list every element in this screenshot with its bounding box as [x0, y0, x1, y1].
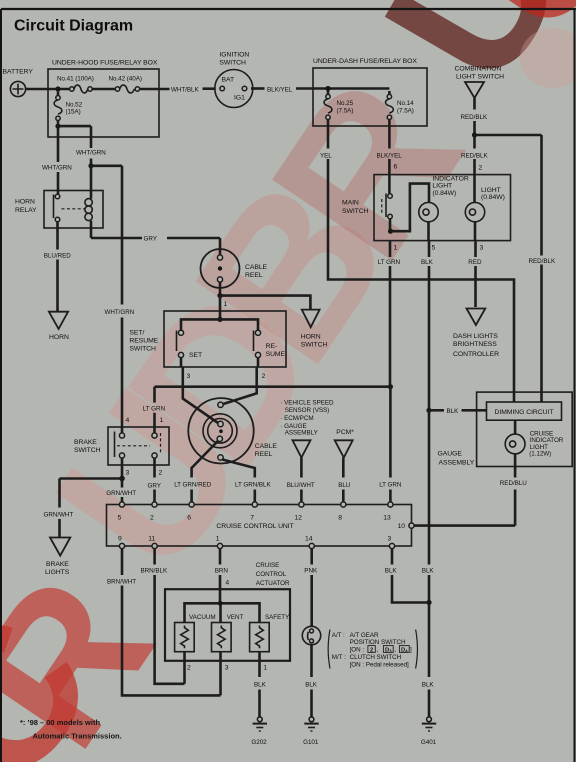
svg-text:GRY: GRY: [144, 236, 158, 243]
svg-text:CONTROLLER: CONTROLLER: [453, 351, 499, 358]
svg-text:SWITCH: SWITCH: [74, 447, 101, 454]
svg-text:7: 7: [250, 515, 254, 522]
wire indicator light to terminal 5: [427, 222, 430, 241]
wire BLU/RED horn relay to horn: [44, 222, 71, 311]
light (0.84W): [465, 175, 505, 241]
svg-text:(0.84W): (0.84W): [481, 194, 505, 201]
svg-text:CRUISE: CRUISE: [256, 562, 279, 569]
svg-text:WHT/GRN: WHT/GRN: [76, 149, 106, 156]
fuse No.41 (100A): [57, 76, 94, 93]
cable reel lower: [188, 398, 277, 463]
cruise control actuator box: [165, 562, 290, 661]
svg-text:(1.12W): (1.12W): [529, 450, 551, 457]
footnote: [20, 718, 122, 741]
node main switch junction: [388, 229, 393, 234]
node WHT/GRN junction: [88, 163, 93, 168]
svg-text:1: 1: [224, 301, 228, 308]
svg-text:CABLE: CABLE: [255, 443, 278, 450]
svg-text:1: 1: [394, 245, 398, 252]
svg-text:BLU/RED: BLU/RED: [44, 253, 71, 260]
svg-text:8: 8: [338, 515, 342, 522]
brake lights: [45, 538, 70, 577]
svg-text:ASSEMBLY: ASSEMBLY: [285, 430, 319, 437]
svg-text:BLK/YEL: BLK/YEL: [377, 152, 403, 159]
wire WHT/GRN mid drop to junction: [76, 126, 106, 166]
svg-text:BRAKE: BRAKE: [46, 561, 69, 568]
svg-text:CABLE: CABLE: [245, 264, 268, 271]
wire RED/BLK branch right to dimming circuit: [475, 135, 556, 402]
svg-text:RED/BLK: RED/BLK: [461, 114, 488, 121]
svg-text:HORN: HORN: [15, 198, 35, 205]
svg-text:MAIN: MAIN: [342, 200, 359, 207]
svg-text:WHT/GRN: WHT/GRN: [105, 309, 135, 316]
svg-text:3: 3: [187, 373, 191, 380]
wire BLK/YEL from fuse 14 to main switch terminal 6: [377, 120, 403, 175]
set/resume switch box: [129, 311, 286, 367]
svg-text:11: 11: [148, 535, 155, 542]
wire WHT/GRN left drop to horn relay contact: [42, 126, 72, 194]
wire BLK unit pin 3 to junction: [385, 549, 429, 603]
svg-text:WHT/BLK: WHT/BLK: [171, 86, 199, 93]
svg-text:IGNITION: IGNITION: [219, 52, 249, 59]
svg-text:[ON :: [ON :: [350, 647, 365, 654]
node brake junction: [119, 476, 125, 482]
wire LT GRN terminal 1 to LT GRN bus: [378, 241, 401, 387]
svg-text:RESUME: RESUME: [129, 338, 158, 345]
svg-text:RED/BLK: RED/BLK: [461, 152, 488, 159]
wire junction to set and resume contacts: [181, 319, 258, 330]
wire RED/BLK from combination light switch: [461, 98, 488, 135]
svg-text:ASSEMBLY: ASSEMBLY: [439, 460, 475, 467]
under-hood fuse/relay box: [48, 60, 159, 138]
svg-text:5: 5: [432, 245, 436, 252]
svg-text:3: 3: [225, 665, 229, 672]
svg-text:LT GRN/BLK: LT GRN/BLK: [235, 482, 272, 489]
wire GRY horn relay coil to cable reel: [91, 221, 220, 255]
wire BRN unit pin 1 to actuator terminal 4: [215, 549, 230, 604]
svg-text:A/T GEAR: A/T GEAR: [350, 632, 379, 639]
svg-text:SWITCH: SWITCH: [301, 342, 328, 349]
svg-text:G401: G401: [421, 739, 437, 746]
svg-text:SWITCH: SWITCH: [129, 346, 156, 353]
vacuum solenoid: [175, 614, 216, 652]
svg-text:LT GRN: LT GRN: [379, 482, 402, 489]
svg-text:RE-: RE-: [266, 343, 278, 350]
wire WHT/GRN long run to brake switch terminal 4: [105, 166, 135, 433]
fuse No.42 (40A): [109, 76, 142, 93]
vss triangle: [293, 440, 311, 457]
svg-text:GRN/WHT: GRN/WHT: [106, 490, 136, 497]
svg-text:D3: D3: [385, 647, 392, 653]
svg-text:2: 2: [479, 164, 483, 171]
svg-text:4: 4: [225, 579, 229, 586]
svg-text:No.25: No.25: [337, 100, 354, 107]
pcm triangle: [335, 429, 355, 458]
node horn branch junction: [217, 293, 222, 298]
svg-text:IG1: IG1: [234, 95, 245, 102]
svg-text:(7.5A): (7.5A): [337, 107, 354, 114]
wire BRN/WHT unit pin 9 to vent solenoid: [107, 549, 221, 696]
main switch box: [342, 175, 511, 241]
svg-text:HORN: HORN: [301, 334, 321, 341]
svg-text:1: 1: [160, 417, 164, 424]
horn relay: [15, 191, 103, 229]
wire BLK/YEL ignition to under-dash box: [251, 86, 313, 93]
svg-text:4: 4: [126, 417, 130, 424]
a/t note block: [328, 630, 417, 669]
svg-text:RED/BLK: RED/BLK: [529, 258, 556, 265]
safety solenoid: [250, 614, 290, 652]
svg-text:3: 3: [480, 245, 484, 252]
wire RED terminal 3 to dash lights controller: [468, 241, 483, 307]
frame and title (decorative): [1, 8, 576, 10]
fuse No.14 (7.5A): [386, 91, 415, 120]
svg-text:WHT/GRN: WHT/GRN: [42, 164, 72, 171]
svg-text:BLK: BLK: [421, 259, 434, 266]
svg-text:,: ,: [376, 647, 378, 654]
battery: [3, 69, 34, 97]
wire LT GRN bus to brake switch terminal 1: [143, 387, 391, 433]
svg-text:D4: D4: [401, 647, 408, 653]
svg-text:DASH LIGHTS: DASH LIGHTS: [453, 333, 498, 340]
svg-text:Automatic Transmission.: Automatic Transmission.: [33, 732, 122, 741]
wire fuse52 junction to coil branch: [58, 125, 91, 128]
svg-text:PNK: PNK: [304, 568, 318, 575]
wire cable reel to junction: [219, 282, 222, 296]
node BLK junction at 602: [426, 600, 431, 605]
svg-text:LIGHTS: LIGHTS: [45, 569, 70, 576]
svg-text:,: ,: [394, 647, 396, 654]
svg-text:SUME: SUME: [266, 351, 286, 358]
svg-text:13: 13: [383, 515, 391, 522]
svg-text:*: ’98 – 00 models with: *: ’98 – 00 models with: [20, 718, 100, 727]
svg-text:LT GRN: LT GRN: [378, 259, 401, 266]
svg-text:VENT: VENT: [227, 614, 244, 621]
svg-text:RED: RED: [468, 259, 482, 266]
svg-text:CONTROL: CONTROL: [256, 571, 287, 578]
cruise control unit: [107, 502, 415, 549]
svg-text:BLU/WHT: BLU/WHT: [287, 482, 315, 489]
ignition switch: [215, 52, 253, 108]
resume switch: [254, 330, 286, 367]
svg-text:12: 12: [294, 515, 302, 522]
svg-text:SENSOR (VSS): SENSOR (VSS): [285, 407, 330, 414]
svg-text:G101: G101: [303, 739, 319, 746]
svg-text:2: 2: [159, 469, 163, 476]
svg-text:A/T :: A/T :: [332, 632, 345, 639]
svg-text:1: 1: [263, 665, 267, 672]
wire BLU/WHT vss to unit pin 12: [287, 458, 315, 503]
svg-text:BLK: BLK: [422, 681, 435, 688]
wire BLK unit pin 5 branch down to G401: [422, 410, 435, 602]
svg-text:UNDER-HOOD FUSE/RELAY BOX: UNDER-HOOD FUSE/RELAY BOX: [52, 60, 158, 67]
wire to horn switch: [220, 296, 310, 309]
actuator terminal labels: [187, 665, 267, 672]
node actuator feed junction: [218, 601, 223, 606]
svg-text:BATTERY: BATTERY: [3, 69, 34, 76]
main switch contact: [382, 175, 393, 232]
svg-text:LIGHT: LIGHT: [481, 187, 501, 194]
svg-text:COMBINATION: COMBINATION: [455, 66, 502, 73]
svg-text:SAFETY: SAFETY: [265, 614, 290, 621]
svg-text:2: 2: [150, 515, 154, 522]
wire bus inside under-dash box: [313, 87, 389, 90]
horn: [49, 312, 69, 342]
svg-text:1: 1: [216, 535, 220, 542]
svg-text:6: 6: [394, 163, 398, 170]
svg-text:6: 6: [187, 515, 191, 522]
node RED/BLK junction: [472, 132, 477, 137]
wire LT GRN/BLK cable reel to unit pin 7: [222, 460, 271, 503]
set switch: [177, 330, 203, 367]
svg-text:· ECM/PCM: · ECM/PCM: [280, 415, 313, 422]
wire main bus in under-hood box: [48, 88, 170, 91]
wire vacuum terminal 2: [183, 652, 186, 663]
svg-text:BAT: BAT: [222, 76, 235, 83]
fuse No.52 (15A): [54, 92, 83, 124]
node fuse52 bottom junction: [55, 124, 60, 129]
svg-text:BRIGHTNESS: BRIGHTNESS: [453, 341, 497, 348]
svg-text:(0.84W): (0.84W): [432, 190, 456, 197]
vent solenoid: [212, 614, 244, 652]
wire BLK at switch to ground G101: [305, 645, 318, 717]
wire main switch to indicator light: [391, 184, 430, 232]
svg-text:LIGHT SWITCH: LIGHT SWITCH: [456, 73, 504, 80]
ground G101: [303, 717, 319, 746]
svg-text:2: 2: [187, 665, 191, 672]
wire GRN/WHT branch to brake lights: [44, 479, 123, 538]
svg-text:CRUISE CONTROL UNIT: CRUISE CONTROL UNIT: [216, 523, 293, 530]
wire battery to under-hood box: [26, 88, 48, 91]
svg-text:BRN: BRN: [215, 568, 229, 575]
ground G202: [251, 717, 267, 746]
svg-text:No.52: No.52: [66, 101, 83, 108]
wire junction to long WHT/GRN run: [91, 165, 122, 168]
wire LT GRN/RED cable reel to unit pin 6: [174, 441, 218, 502]
wire BLK to dimming circuit: [429, 408, 487, 415]
svg-text:(7.5A): (7.5A): [397, 107, 414, 114]
wire set terminal 3 to cable reel: [183, 367, 218, 423]
svg-text:INDICATOR: INDICATOR: [432, 175, 468, 182]
svg-text:G202: G202: [251, 739, 267, 746]
svg-text:POSITION SWITCH: POSITION SWITCH: [350, 639, 406, 646]
brake switch: [74, 417, 169, 476]
svg-text:BLU: BLU: [338, 482, 351, 489]
svg-text:[ON : Pedal released]: [ON : Pedal released]: [350, 662, 409, 669]
svg-text:· VEHICLE SPEED: · VEHICLE SPEED: [280, 399, 334, 406]
svg-text:10: 10: [398, 523, 406, 530]
node BLK branch junction: [426, 408, 431, 413]
wire BRN/BLK unit pin 11 to vacuum solenoid: [141, 549, 185, 684]
wire WHT/BLK bus to ignition switch: [171, 86, 216, 93]
wire to set/resume switch terminal 1: [220, 296, 228, 320]
vehicle speed sensor labels: [280, 399, 334, 436]
svg-text:GAUGE: GAUGE: [438, 450, 463, 457]
wire brake terminal 3 to junction: [121, 458, 124, 478]
svg-text:]: ]: [410, 647, 412, 654]
wire BLK junction to ground G401: [422, 603, 435, 718]
svg-text:No.14: No.14: [397, 100, 414, 107]
svg-text:No.41 (100A): No.41 (100A): [57, 76, 94, 83]
svg-text:BLK/YEL: BLK/YEL: [267, 86, 293, 93]
svg-text:BLK: BLK: [422, 568, 435, 575]
svg-text:RELAY: RELAY: [15, 207, 37, 214]
svg-text:BLK: BLK: [254, 681, 267, 688]
cable reel upper: [201, 249, 268, 288]
wire PNK unit pin 14 to at switch: [304, 549, 318, 627]
svg-text:REEL: REEL: [255, 451, 273, 458]
svg-text:GRN/WHT: GRN/WHT: [44, 511, 74, 518]
svg-text:9: 9: [118, 535, 122, 542]
svg-text:(15A): (15A): [66, 109, 81, 116]
wire BLK terminal 5 down: [421, 241, 436, 411]
wire LT GRN to unit pin 13: [379, 387, 402, 502]
svg-text:HORN: HORN: [49, 334, 69, 341]
wire vent terminal 3: [219, 652, 222, 663]
wire GRN/WHT to unit pin 5: [106, 479, 136, 503]
svg-text:LT GRN/RED: LT GRN/RED: [174, 482, 212, 489]
ground G401: [421, 717, 437, 746]
wire BLK safety terminal 1 to ground G202: [254, 652, 267, 717]
svg-text:SET: SET: [189, 352, 202, 359]
node bus junction: [55, 86, 60, 91]
wire RED/BLU unit pin 10 to cruise indicator light: [414, 467, 527, 526]
under-dash fuse/relay box: [313, 58, 427, 126]
svg-text:CLUTCH SWITCH: CLUTCH SWITCH: [350, 654, 402, 661]
wire RED/BLK to main switch terminal 2: [461, 135, 488, 175]
svg-text:DIMMING CIRCUIT: DIMMING CIRCUIT: [495, 409, 554, 416]
wire GRY brake terminal 2 to unit pin 2: [148, 458, 162, 502]
wire resume terminal 2 to cable reel: [223, 367, 265, 404]
svg-text:BRAKE: BRAKE: [74, 439, 97, 446]
svg-text:BLK: BLK: [305, 681, 318, 688]
svg-text:REEL: REEL: [245, 272, 263, 279]
svg-text:3: 3: [388, 535, 392, 542]
svg-text:14: 14: [305, 535, 313, 542]
dash lights brightness controller: [453, 309, 499, 359]
svg-text:ACTUATOR: ACTUATOR: [256, 580, 290, 587]
dimming circuit: [487, 402, 562, 420]
svg-text:YEL: YEL: [320, 152, 332, 159]
node set/resume inner junction: [217, 317, 222, 322]
svg-text:M/T :: M/T :: [332, 654, 346, 661]
svg-text:UNDER-DASH FUSE/RELAY BOX: UNDER-DASH FUSE/RELAY BOX: [313, 58, 417, 65]
wire coil top: [90, 166, 93, 199]
svg-text:SET/: SET/: [129, 330, 144, 337]
indicator light (0.84W): [419, 175, 469, 221]
svg-text:GRY: GRY: [148, 483, 162, 490]
svg-text:3: 3: [126, 469, 130, 476]
svg-text:PCM*: PCM*: [336, 429, 354, 436]
a/t gear position switch / clutch switch: [302, 626, 320, 644]
svg-text:SWITCH: SWITCH: [342, 208, 369, 215]
combination light switch: [455, 66, 505, 98]
svg-text:BRN/WHT: BRN/WHT: [107, 578, 136, 585]
svg-text:LIGHT: LIGHT: [432, 183, 452, 190]
gauge assembly box: [438, 392, 573, 467]
svg-text:BLK: BLK: [447, 408, 460, 415]
horn switch: [301, 310, 328, 349]
node LT GRN bus junction: [388, 384, 393, 389]
svg-text:5: 5: [118, 515, 122, 522]
svg-text:RED/BLU: RED/BLU: [500, 480, 527, 487]
cruise indicator light (1.12W): [505, 420, 564, 466]
svg-text:BRN/BLK: BRN/BLK: [141, 568, 168, 575]
fuse No.25 (7.5A): [324, 91, 354, 120]
svg-text:LT GRN: LT GRN: [143, 405, 166, 412]
node under-dash junction: [325, 86, 330, 91]
svg-text:2: 2: [370, 647, 373, 653]
svg-text:Circuit Diagram: Circuit Diagram: [14, 18, 133, 35]
svg-text:SWITCH: SWITCH: [219, 59, 246, 66]
wire BLU pcm to unit pin 8: [338, 458, 351, 503]
svg-text:No.42 (40A): No.42 (40A): [109, 76, 142, 83]
wire actuator feed bus: [185, 603, 260, 622]
svg-text:2: 2: [262, 373, 266, 380]
svg-text:VACUUM: VACUUM: [189, 614, 216, 621]
svg-text:BLK: BLK: [385, 568, 398, 575]
wire YEL from fuse 25 to dimming circuit: [320, 120, 514, 403]
